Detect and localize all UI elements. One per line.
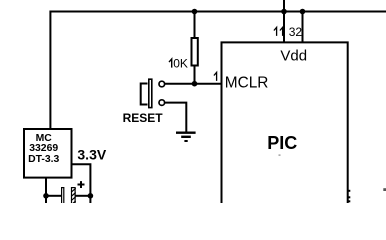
wire button to ground	[165, 103, 186, 132]
svg-text:32: 32	[289, 25, 303, 39]
svg-text:0K: 0K	[173, 57, 188, 71]
svg-text:33269: 33269	[29, 143, 58, 154]
wire resistor top lead	[194, 12, 196, 38]
node capacitor left junction	[43, 193, 49, 199]
label 10K	[169, 57, 188, 71]
wire MCLR net	[165, 83, 222, 85]
wire capacitor right lead	[76, 195, 91, 197]
regulator U2 MC33269DT-3.3 box	[24, 129, 72, 178]
wire regulator bottom lead	[45, 178, 47, 203]
svg-text:MCLR: MCLR	[225, 75, 269, 92]
pushbutton RESET plunger	[149, 79, 152, 107]
resistor R 10K body	[192, 38, 198, 66]
node MCLR junction	[192, 81, 198, 87]
label + polarity	[78, 181, 85, 188]
svg-text:RESET: RESET	[123, 111, 164, 125]
cropped mark right edge	[383, 188, 386, 191]
pin label 11	[274, 27, 283, 36]
node capacitor right junction	[88, 193, 94, 199]
stray dot below PIC	[279, 155, 281, 156]
pushbutton contact bottom	[159, 100, 165, 106]
node pin11/top-rail junction	[281, 9, 287, 15]
wire resistor bottom lead	[194, 67, 196, 84]
pin stub right 2	[348, 196, 351, 198]
pushbutton RESET bracket	[141, 84, 148, 105]
svg-text:PIC: PIC	[267, 133, 297, 153]
capacitor C1 positive plate (hatched)	[71, 188, 76, 208]
svg-text:Vdd: Vdd	[280, 47, 307, 64]
svg-text:3.3V: 3.3V	[77, 147, 106, 163]
pin stub right 3	[348, 200, 351, 202]
svg-text:DT-3.3: DT-3.3	[28, 154, 59, 165]
wire pin 11	[283, 0, 285, 42]
svg-text:MC: MC	[36, 133, 53, 144]
ground	[176, 133, 196, 141]
pin stub right 1	[348, 190, 351, 192]
pushbutton contact top	[159, 81, 165, 87]
IC U1 PIC box	[222, 42, 348, 203]
wire pin 32	[302, 12, 304, 43]
wire capacitor left lead	[46, 195, 61, 197]
node resistor/top-rail junction	[192, 9, 198, 15]
pin label 1	[214, 72, 217, 81]
wire Vdd top rail	[50, 12, 386, 130]
wire regulator output 3.3V	[72, 164, 90, 203]
capacitor C1 negative plate	[62, 188, 64, 208]
node pin32/top-rail junction	[300, 9, 306, 15]
